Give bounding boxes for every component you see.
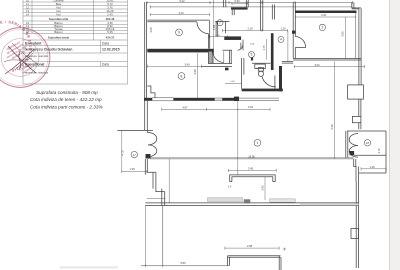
balcony 18 dim 1.35 <box>361 167 386 170</box>
vertical dim 1.75 <box>266 39 268 60</box>
svg-text:4: 4 <box>280 38 282 42</box>
ledge <box>292 31 296 34</box>
svg-text:1.20: 1.20 <box>280 27 286 31</box>
dimension labels <box>121 0 381 265</box>
hallway walls around rooms 5/6 <box>224 36 241 39</box>
svg-text:5: 5 <box>251 53 253 57</box>
svg-text:2.10: 2.10 <box>247 27 253 31</box>
faint bottom smudge <box>60 266 118 268</box>
svg-text:5.35: 5.35 <box>107 30 113 34</box>
central top bathroom walls <box>223 0 225 7</box>
svg-text:2.98: 2.98 <box>247 244 253 248</box>
bathroom right wall <box>274 76 276 89</box>
page right edge shading <box>390 0 400 270</box>
interior dim line y=110.6 <box>162 108 270 111</box>
dim 2.98 <box>225 247 286 251</box>
balcony 18 right wall <box>385 131 387 173</box>
bottom dim 3.02 <box>294 65 364 68</box>
table row texts <box>26 0 115 40</box>
central vertical wall <box>260 0 262 31</box>
signature scribble <box>4 43 38 74</box>
pilaster on right wall <box>348 85 364 99</box>
long vertical dim at x=334.5 <box>334 61 336 159</box>
table outer border <box>23 0 128 84</box>
svg-text:1.35: 1.35 <box>129 167 135 171</box>
svg-text:Balcon: Balcon <box>54 30 63 34</box>
svg-text:3.02: 3.02 <box>314 63 320 67</box>
dim 1.20 short <box>209 35 227 38</box>
vertical dim below bracket <box>264 177 266 200</box>
room 8 interior dimension 3.40 <box>148 65 202 68</box>
balcony 18 top line <box>347 130 386 132</box>
dim line 1.40 <box>225 82 242 84</box>
right wall of terrace <box>355 182 357 269</box>
room 9 top wall <box>147 19 209 21</box>
left wall step shape <box>147 86 155 98</box>
bracket element <box>230 175 276 182</box>
svg-text:3.45: 3.45 <box>248 166 254 170</box>
window band lines <box>145 202 358 204</box>
big room vertical dim <box>345 17 347 59</box>
room 9 width dimension 4.40 <box>150 13 209 16</box>
svg-text:434.37: 434.37 <box>106 36 115 40</box>
room 9 door arc <box>197 22 208 34</box>
long horizontal dim line 16.56 <box>150 158 354 160</box>
bracket dim 3.45 <box>228 169 276 172</box>
svg-text:Suprafata construita - 908 mp: Suprafata construita - 908 mp <box>36 90 98 95</box>
terrace bottom dim line 5.80 <box>141 265 229 267</box>
svg-text:4.40: 4.40 <box>178 11 184 15</box>
svg-text:8: 8 <box>181 74 183 78</box>
left wall lower section <box>146 130 148 133</box>
corridor floor walls <box>208 63 232 65</box>
svg-text:3.65: 3.65 <box>341 31 345 37</box>
balcony 17 left dim <box>121 130 123 172</box>
room label circles and texts <box>131 20 371 158</box>
svg-text:9: 9 <box>178 31 180 35</box>
room 8 vertical dim line <box>197 53 199 98</box>
svg-text:2: 2 <box>321 26 323 30</box>
terrace left verticals <box>144 206 146 266</box>
svg-text:Data: Data <box>102 62 109 66</box>
svg-text:Suprafata totala: Suprafata totala <box>48 36 70 40</box>
svg-text:Cota indiviza parti comune - 2: Cota indiviza parti comune - 2.33% <box>30 104 103 109</box>
corridor door arc <box>213 51 224 62</box>
svg-text:1.75: 1.75 <box>262 45 266 51</box>
svg-text:3.98: 3.98 <box>193 69 197 75</box>
balcony 18 bottom <box>359 172 386 174</box>
thick wall below room 8 <box>144 98 234 101</box>
svg-text:3.08: 3.08 <box>149 27 153 33</box>
svg-text:5.46: 5.46 <box>330 124 334 130</box>
svg-text:1.35: 1.35 <box>369 165 375 169</box>
svg-text:16.56: 16.56 <box>248 155 255 159</box>
bottom thin wall <box>228 255 281 257</box>
svg-text:1.98: 1.98 <box>212 24 216 30</box>
right wall continues <box>358 99 360 116</box>
left outer wall <box>144 2 146 130</box>
top right corner walls <box>351 2 353 8</box>
thick wall below room 9 <box>147 49 213 53</box>
bathroom door arc <box>262 77 276 87</box>
room 8 right wall <box>209 52 213 64</box>
svg-text:12.02.2015: 12.02.2015 <box>102 48 120 52</box>
big room left wall <box>292 2 294 58</box>
svg-text:Data: Data <box>102 41 109 45</box>
vertical dim at x=213.7 <box>213 0 215 63</box>
svg-text:3.92: 3.92 <box>261 185 265 191</box>
svg-text:5.22: 5.22 <box>179 0 185 3</box>
big room door arc <box>295 37 305 48</box>
svg-text:4.76: 4.76 <box>377 148 381 154</box>
toilet <box>258 68 263 72</box>
big right room (2) top thick wall <box>295 11 357 14</box>
svg-text:7: 7 <box>219 21 221 25</box>
svg-text:3.40: 3.40 <box>184 63 190 67</box>
room 9 right wall <box>207 34 209 49</box>
balcony 17 top line <box>117 129 152 131</box>
svg-text:4.30: 4.30 <box>321 13 327 17</box>
thick vertical wall center <box>271 33 274 70</box>
table column lines <box>31 0 33 33</box>
corridor walls near room 7 <box>215 20 229 22</box>
table horizontal row lines <box>23 1 128 3</box>
staircase wall left <box>145 159 164 206</box>
top dimension line B <box>150 5 352 8</box>
bathroom top shelf line <box>252 62 271 64</box>
staircase wall right <box>354 159 356 182</box>
bathroom left wall <box>241 58 243 89</box>
right outer wall <box>358 8 360 85</box>
long interior line at y=158.9 second <box>150 157 354 159</box>
left french doors <box>148 133 157 157</box>
gray window fills <box>300 204 359 206</box>
sink <box>255 64 265 68</box>
svg-text:1: 1 <box>257 141 259 145</box>
svg-text:Cota indiviza de teren - 422.2: Cota indiviza de teren - 422.22 mp <box>30 97 102 102</box>
right french doors <box>349 134 358 158</box>
svg-text:14: 14 <box>26 13 30 17</box>
hallway dimension line 2.10 / 1.20 <box>222 29 287 32</box>
svg-text:4.76: 4.76 <box>121 150 125 156</box>
svg-text:2.52: 2.52 <box>248 105 254 109</box>
svg-text:5.80: 5.80 <box>180 261 186 265</box>
balcony 17 dim 1.35 <box>122 170 147 173</box>
big room bottom wall <box>293 58 361 60</box>
svg-text:4.87: 4.87 <box>182 105 188 109</box>
svg-text:0.90: 0.90 <box>234 0 240 3</box>
big room width dim 4.30 <box>295 15 356 18</box>
executant / receptionat cells <box>25 41 120 74</box>
top dimension line A <box>147 1 353 4</box>
